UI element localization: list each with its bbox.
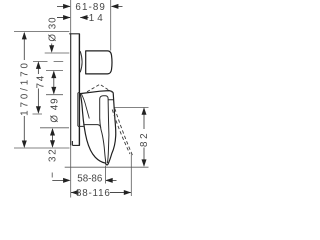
escutcheon plate top edge	[69, 33, 80, 35]
handle arm inner diagonal	[81, 94, 89, 119]
dashed swung handle tent top	[87, 84, 112, 92]
dimension 88-116 row	[71, 188, 131, 199]
svg-text:58-86: 58-86	[77, 174, 103, 185]
dimension 58-86 row	[52, 173, 116, 185]
handle paddle outline	[80, 91, 116, 165]
escutcheon plate bottom edge	[72, 141, 80, 145]
dimension 14 row	[57, 13, 106, 24]
handle head inner contour	[100, 96, 114, 164]
svg-text:88-116: 88-116	[76, 188, 111, 199]
svg-text:61-89: 61-89	[75, 2, 106, 13]
node extension line x=104.8 below grip	[105, 166, 107, 184]
node hub right extension line x=111	[110, 0, 112, 51]
dimension 82 right	[65, 107, 150, 167]
svg-text:170/170: 170/170	[20, 60, 31, 116]
escutcheon plate front face	[78, 34, 80, 146]
dimension diameter 49	[46, 71, 63, 123]
escutcheon plate back face	[70, 34, 72, 146]
svg-text:32: 32	[47, 147, 58, 162]
dimension 74	[33, 61, 64, 114]
handle paddle rear edge at plate	[78, 93, 80, 127]
svg-text:14: 14	[89, 13, 106, 24]
svg-text:82: 82	[139, 131, 150, 147]
node extension line x=130.3 for 88-116	[130, 155, 132, 197]
svg-text:74: 74	[36, 74, 47, 89]
wire wall extension vertical line	[70, 0, 72, 198]
dashed swung handle diagonal A	[112, 110, 130, 155]
dimension diameter 30	[45, 16, 70, 53]
dimension 32	[40, 128, 69, 162]
dashed swung handle diagonal B	[115, 109, 133, 157]
svg-text:Ø 30: Ø 30	[48, 16, 59, 41]
neck arc between plate and hub	[80, 51, 82, 72]
handle lower inner band and grip inner edge	[78, 125, 101, 128]
dimension 170/170 left	[14, 32, 70, 148]
hub barrel	[86, 51, 112, 74]
dimension 61-89 row	[57, 2, 123, 13]
svg-text:Ø 49: Ø 49	[50, 97, 61, 122]
